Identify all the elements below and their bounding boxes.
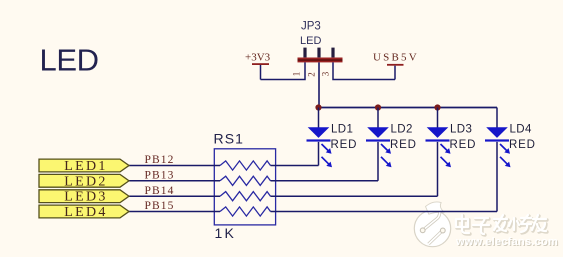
LED LD3	[426, 108, 452, 197]
svg-text:LED3: LED3	[64, 190, 107, 205]
svg-text:LED1: LED1	[64, 159, 107, 174]
resistor network RS1 designator	[214, 131, 245, 147]
junction dot at LD1	[315, 104, 321, 110]
svg-text:RED: RED	[450, 139, 477, 151]
port flag LED1	[39, 159, 129, 174]
connector JP3 pin 2 top stub	[317, 48, 320, 58]
port flag LED2	[39, 174, 129, 189]
net label PB12	[145, 154, 175, 166]
resistor network RS1 box	[214, 149, 275, 225]
svg-text:PB15: PB15	[145, 200, 175, 212]
title LED	[40, 43, 99, 78]
power +3V3 label	[245, 52, 271, 64]
power USB5V bar symbol	[387, 64, 404, 66]
wire flag LED2 to RS1	[129, 180, 220, 182]
wire pin1 to +3V3	[261, 62, 306, 79]
svg-text:PB14: PB14	[145, 185, 175, 197]
LED LD3 designator	[450, 124, 472, 136]
LED LD4 designator	[510, 124, 533, 136]
svg-text:RED: RED	[509, 139, 536, 151]
wire USB5V stem	[394, 66, 396, 80]
port flag LED4	[39, 205, 129, 220]
wire +3V3 stem	[260, 65, 262, 80]
LED LD4	[485, 108, 511, 212]
connector JP3 pin 1 top stub	[303, 48, 306, 58]
pin number 3	[321, 71, 331, 76]
junction dot at LD3	[434, 104, 440, 110]
svg-text:USB5V: USB5V	[373, 52, 419, 64]
connector JP3 body bar	[298, 58, 343, 63]
LED LD2 value RED	[390, 139, 417, 151]
connector JP3 designator	[301, 21, 321, 33]
wire flag LED1 to RS1	[129, 165, 220, 167]
net label PB14	[145, 185, 175, 197]
svg-text:LD2: LD2	[391, 124, 413, 136]
svg-text:1K: 1K	[215, 225, 237, 241]
resistor element row3	[220, 192, 271, 201]
wire RS1 to LD4	[271, 211, 498, 213]
wire flag LED3 to RS1	[129, 195, 220, 197]
LED LD1	[307, 108, 333, 168]
svg-text:LED4: LED4	[64, 205, 107, 220]
svg-text:www.elecfans.com: www.elecfans.com	[455, 236, 558, 248]
watermark url www.elecfans.com	[455, 236, 559, 249]
resistor network RS1 value 1K	[215, 225, 237, 241]
svg-text:1: 1	[292, 72, 302, 77]
LED LD3 value RED	[450, 139, 477, 151]
resistor element row1	[220, 161, 271, 170]
wire anode rail	[319, 107, 498, 109]
svg-text:+3V3: +3V3	[245, 52, 271, 64]
resistor element row2	[220, 176, 271, 185]
LED LD1 value RED	[331, 139, 358, 151]
svg-text:RED: RED	[390, 139, 417, 151]
wire RS1 to LD2	[271, 180, 379, 182]
watermark logo circle	[414, 202, 450, 247]
svg-text:3: 3	[321, 71, 331, 76]
power +3V3 bar symbol	[252, 63, 269, 65]
pin number 2	[307, 72, 317, 77]
svg-text:JP3: JP3	[301, 21, 321, 33]
wire pin3 to USB5V	[333, 62, 395, 79]
net label PB15	[145, 200, 175, 212]
LED LD2 designator	[391, 124, 413, 136]
svg-text:2: 2	[307, 72, 317, 77]
svg-text:LD3: LD3	[450, 124, 472, 136]
LED LD2	[366, 108, 392, 181]
LED LD4 value RED	[509, 139, 536, 151]
connector JP3 pin 3 top stub	[331, 48, 334, 58]
svg-text:LED: LED	[40, 43, 99, 78]
wire flag LED4 to RS1	[129, 211, 220, 213]
svg-text:PB12: PB12	[145, 154, 175, 166]
connector JP3 value LED	[300, 35, 321, 47]
wire pin2 down to rail	[318, 62, 320, 107]
svg-text:PB13: PB13	[145, 170, 175, 182]
resistor element row4	[220, 207, 271, 216]
power USB5V label	[373, 52, 419, 64]
svg-text:RS1: RS1	[214, 131, 245, 147]
svg-text:LED2: LED2	[64, 174, 107, 189]
junction dot at LD2	[375, 104, 381, 110]
watermark chinese text 电子发烧友	[457, 216, 547, 235]
svg-text:LD4: LD4	[510, 124, 533, 136]
wire RS1 to LD1	[271, 165, 319, 167]
svg-text:RED: RED	[331, 139, 358, 151]
LED LD1 designator	[331, 124, 353, 136]
port flag LED3	[39, 190, 129, 205]
net label PB13	[145, 170, 175, 182]
svg-text:LD1: LD1	[331, 124, 353, 136]
wire RS1 to LD3	[271, 195, 438, 197]
svg-text:LED: LED	[300, 35, 321, 47]
pin number 1	[292, 72, 302, 77]
